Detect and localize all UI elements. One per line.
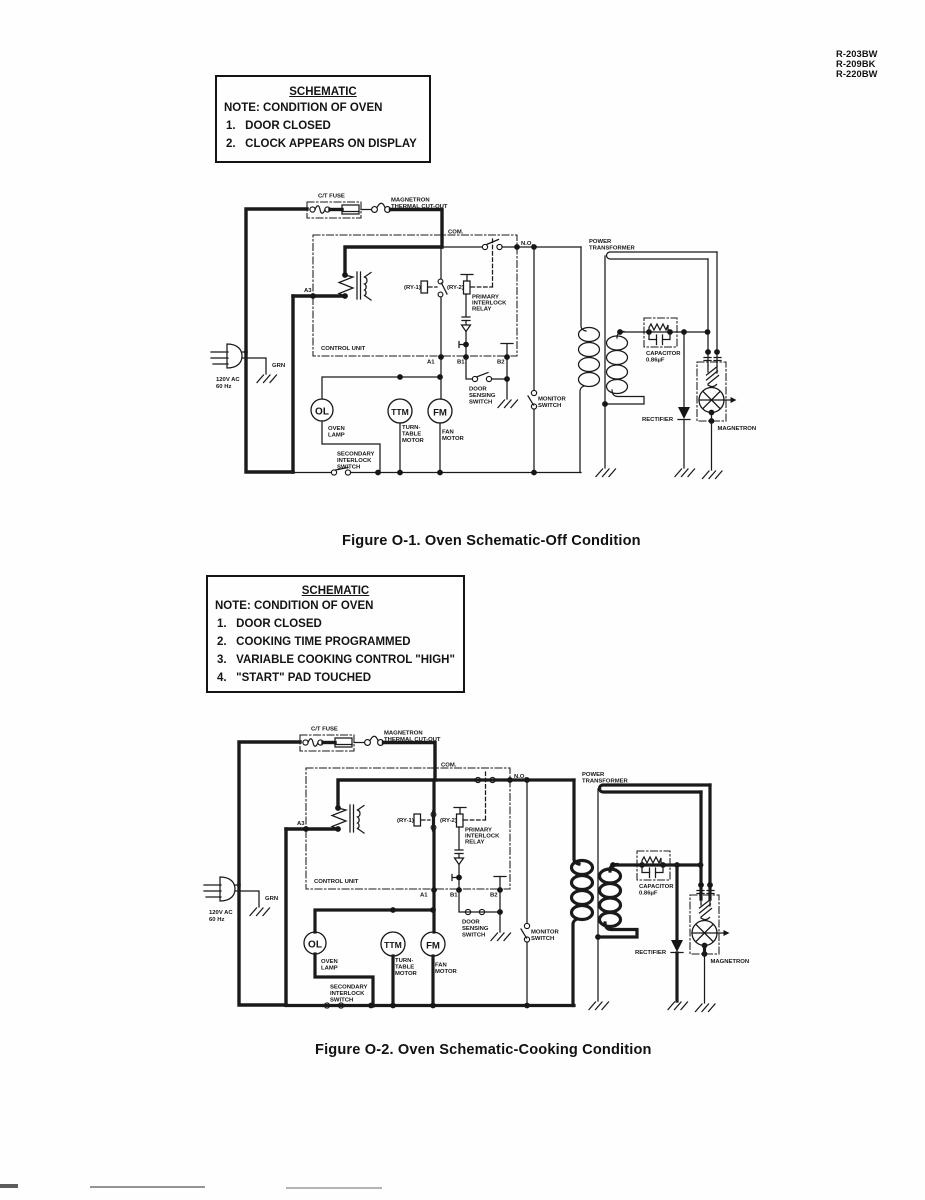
svg-text:DOOR: DOOR [469, 387, 487, 393]
svg-text:(RY-1): (RY-1) [397, 818, 414, 824]
svg-text:LAMP: LAMP [328, 433, 345, 439]
svg-text:INTERLOCK: INTERLOCK [330, 991, 365, 997]
svg-text:A1: A1 [420, 893, 428, 899]
svg-text:OL: OL [308, 940, 322, 951]
svg-text:B2: B2 [497, 360, 505, 366]
svg-text:POWER: POWER [582, 772, 605, 778]
svg-text:SECONDARY: SECONDARY [337, 452, 374, 458]
svg-text:(RY-2): (RY-2) [440, 818, 457, 824]
svg-text:FAN: FAN [435, 963, 447, 969]
svg-text:C/T FUSE: C/T FUSE [318, 194, 345, 200]
svg-text:TABLE: TABLE [395, 965, 414, 971]
svg-text:TTM: TTM [391, 407, 409, 417]
svg-text:FAN: FAN [442, 430, 454, 436]
svg-text:RELAY: RELAY [465, 840, 484, 846]
svg-text:TABLE: TABLE [402, 432, 421, 438]
svg-text:MOTOR: MOTOR [402, 438, 425, 444]
svg-text:120V AC: 120V AC [209, 910, 233, 916]
svg-text:TTM: TTM [384, 940, 402, 950]
svg-text:MAGNETRON: MAGNETRON [384, 731, 423, 737]
svg-text:SENSING: SENSING [469, 393, 496, 399]
svg-text:0.86µF: 0.86µF [639, 891, 658, 897]
svg-text:SWITCH: SWITCH [330, 998, 353, 1004]
svg-text:MONITOR: MONITOR [531, 930, 559, 936]
svg-text:MOTOR: MOTOR [442, 436, 465, 442]
svg-text:OVEN: OVEN [321, 959, 338, 965]
svg-text:OL: OL [315, 407, 329, 418]
svg-text:A3: A3 [304, 288, 312, 294]
svg-text:TURN-: TURN- [402, 425, 420, 431]
svg-text:0.86µF: 0.86µF [646, 358, 665, 364]
svg-text:OVEN: OVEN [328, 426, 345, 432]
svg-text:FM: FM [433, 408, 447, 419]
svg-text:60 Hz: 60 Hz [209, 917, 224, 923]
svg-text:SWITCH: SWITCH [531, 936, 554, 942]
svg-text:B2: B2 [490, 893, 498, 899]
svg-text:MAGNETRON: MAGNETRON [718, 426, 757, 432]
svg-text:B1: B1 [450, 893, 458, 899]
svg-text:120V AC: 120V AC [216, 377, 240, 383]
svg-text:SWITCH: SWITCH [469, 400, 492, 406]
svg-text:SWITCH: SWITCH [337, 465, 360, 471]
svg-text:B1: B1 [457, 360, 465, 366]
svg-text:POWER: POWER [589, 239, 612, 245]
svg-text:TURN-: TURN- [395, 958, 413, 964]
svg-text:A1: A1 [427, 360, 435, 366]
svg-text:MONITOR: MONITOR [538, 397, 566, 403]
svg-text:MOTOR: MOTOR [395, 971, 418, 977]
svg-text:(RY-2): (RY-2) [447, 285, 464, 291]
svg-text:C/T FUSE: C/T FUSE [311, 727, 338, 733]
svg-text:GRN: GRN [265, 896, 278, 902]
svg-text:CONTROL UNIT: CONTROL UNIT [321, 346, 366, 352]
svg-text:60 Hz: 60 Hz [216, 384, 231, 390]
svg-text:DOOR: DOOR [462, 920, 480, 926]
svg-text:INTERLOCK: INTERLOCK [337, 458, 372, 464]
svg-text:RECTIFIER: RECTIFIER [642, 417, 674, 423]
svg-text:GRN: GRN [272, 363, 285, 369]
svg-text:CAPACITOR: CAPACITOR [646, 351, 681, 357]
svg-text:FM: FM [426, 941, 440, 952]
svg-text:CONTROL UNIT: CONTROL UNIT [314, 879, 359, 885]
svg-text:(RY-1): (RY-1) [404, 285, 421, 291]
svg-text:A3: A3 [297, 821, 305, 827]
svg-text:TRANSFORMER: TRANSFORMER [589, 246, 636, 252]
svg-text:MAGNETRON: MAGNETRON [711, 959, 750, 965]
svg-text:MOTOR: MOTOR [435, 969, 458, 975]
svg-text:SWITCH: SWITCH [462, 933, 485, 939]
svg-text:CAPACITOR: CAPACITOR [639, 884, 674, 890]
svg-text:SENSING: SENSING [462, 926, 489, 932]
svg-text:MAGNETRON: MAGNETRON [391, 198, 430, 204]
svg-text:SWITCH: SWITCH [538, 403, 561, 409]
svg-text:RELAY: RELAY [472, 307, 491, 313]
svg-text:RECTIFIER: RECTIFIER [635, 950, 667, 956]
svg-text:SECONDARY: SECONDARY [330, 985, 367, 991]
svg-text:LAMP: LAMP [321, 966, 338, 972]
